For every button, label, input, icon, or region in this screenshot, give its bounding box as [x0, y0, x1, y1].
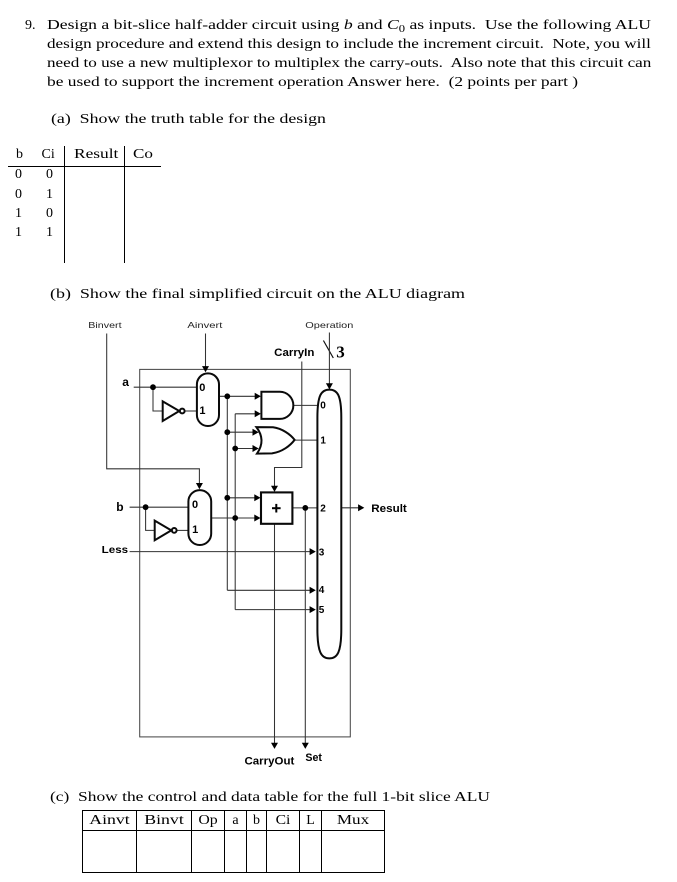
wire Less to mux in3 — [130, 551, 313, 553]
item (c) — [50, 790, 490, 805]
item (b) — [50, 287, 465, 302]
arrowhead a-bus into adder inA — [254, 494, 260, 501]
svg-text:4: 4 — [319, 585, 325, 596]
junction dot a-bus adder — [224, 495, 230, 501]
adder plus sign — [272, 504, 281, 513]
svg-text:Operation: Operation — [305, 320, 354, 330]
wire Result — [341, 507, 360, 509]
OR gate — [256, 427, 294, 454]
svg-text:2: 2 — [320, 504, 326, 515]
svg-text:Binvert: Binvert — [88, 320, 122, 330]
wire Set — [304, 508, 306, 744]
arrowhead a-bus into mux in4 — [310, 587, 316, 594]
truth table (a): headers — [16, 147, 23, 162]
junction dot b-bus OR — [232, 446, 238, 452]
wire b-bus to mux in5 — [235, 609, 312, 611]
wire a-bus to mux in4 — [227, 589, 312, 591]
wire Ainvert — [205, 334, 207, 369]
svg-text:5: 5 — [319, 605, 325, 616]
wire adder output to mux in2 — [292, 507, 317, 509]
junction dot a — [150, 384, 156, 390]
svg-text:1: 1 — [199, 405, 205, 417]
wire Binvert — [107, 334, 200, 486]
wire a to NOT gate — [153, 387, 163, 411]
wire b input — [130, 506, 188, 508]
svg-text:1: 1 — [192, 524, 198, 536]
svg-text:Ainvert: Ainvert — [187, 320, 223, 330]
NOT gate b — [155, 521, 172, 541]
svg-text:Result: Result — [371, 503, 407, 515]
AND gate — [261, 392, 293, 419]
arrowhead Operation into mux top — [326, 383, 333, 389]
NOT gate a — [163, 401, 180, 421]
control table (c) borders — [82, 810, 385, 811]
junction dot b-bus adder — [232, 515, 238, 521]
arrowhead Binvert into b-mux — [196, 483, 203, 489]
wire AND output to mux in0 — [294, 404, 318, 406]
arrowhead Result — [358, 504, 364, 511]
wire CarryOut — [274, 524, 276, 744]
svg-text:3: 3 — [336, 343, 345, 362]
wire a input — [134, 386, 197, 388]
wire OR output to mux in1 — [295, 439, 318, 441]
svg-text:1: 1 — [320, 436, 326, 447]
svg-text:CarryOut: CarryOut — [245, 756, 295, 768]
svg-text:CarryIn: CarryIn — [274, 347, 314, 359]
svg-text:Set: Set — [305, 752, 322, 764]
svg-text:Less: Less — [102, 544, 129, 556]
wire Operation — [328, 333, 330, 386]
problem 9 paragraph — [25, 18, 36, 33]
adder — [261, 492, 292, 523]
wire b-bus to OR in2 — [235, 448, 255, 450]
svg-text:0: 0 — [320, 401, 326, 412]
wire a-mux output to AND in1 — [219, 395, 257, 397]
arrowhead CarryOut — [271, 743, 278, 749]
truth table rules — [8, 166, 161, 167]
wire CarryIn — [275, 362, 302, 488]
wire b-mux output to adder inB — [212, 517, 257, 519]
wire a-bus to OR in1 — [227, 431, 255, 433]
arrowhead CarryIn into adder — [271, 486, 278, 492]
svg-text:3: 3 — [319, 548, 325, 559]
arrowhead b-bus into mux in5 — [310, 606, 316, 613]
arrowhead Set — [302, 743, 309, 749]
arrowhead Less into mux in3 — [310, 548, 316, 555]
control table headers — [75, 813, 145, 828]
wire b-bus vertical — [234, 414, 236, 610]
truth table rows — [15, 167, 22, 182]
wire NOT-b output — [177, 529, 188, 531]
wire b to NOT gate — [146, 507, 155, 530]
ALU box — [140, 369, 351, 737]
mux a (2-to-1) — [197, 373, 219, 426]
arrowhead b-mux out into adder inB — [254, 515, 260, 522]
junction dot b — [143, 504, 149, 510]
svg-text:0: 0 — [192, 499, 198, 511]
wire a-bus to adder inA — [227, 497, 256, 499]
mux b (2-to-1) — [188, 490, 211, 545]
bus-width slash — [323, 341, 333, 359]
svg-text:a: a — [122, 375, 129, 389]
junction dot a-bus OR — [224, 429, 230, 435]
arrowhead b-bus into OR in2 — [253, 445, 259, 452]
item (a) — [51, 112, 326, 127]
wire NOT-a output — [185, 410, 197, 412]
svg-text:0: 0 — [199, 382, 205, 394]
arrowhead Ainvert into a-mux — [202, 366, 209, 372]
arrowhead a-mux out into AND in1 — [255, 393, 261, 400]
wire a-bus vertical — [226, 396, 228, 590]
result mux (6-to-1) — [317, 390, 341, 659]
junction dot adder out — [302, 505, 308, 511]
wire b-bus to AND in2 — [235, 413, 257, 415]
arrowhead b-bus into AND in2 — [255, 410, 261, 417]
svg-text:b: b — [116, 500, 123, 514]
junction dot a-mux out — [224, 393, 230, 399]
arrowhead a-bus into OR in1 — [253, 429, 259, 436]
